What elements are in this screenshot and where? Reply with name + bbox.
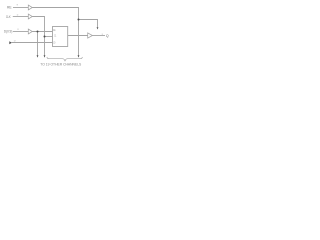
wire RE branch right to enable stub (79, 20, 98, 28)
buffer U3 (D) (28, 29, 32, 34)
wire CLK input (13, 16, 28, 18)
wire D down to other channels (37, 32, 39, 56)
svg-text:CE: CE (53, 28, 56, 32)
arrowhead decoder input (9, 41, 12, 44)
svg-text:TO 19 OTHER CHANNELS: TO 19 OTHER CHANNELS (40, 61, 81, 66)
wire CLK branch into latch clock pin (45, 36, 53, 38)
svg-text:D(0:9): D(0:9) (4, 29, 13, 33)
buffer U1 (RE) (28, 5, 32, 10)
wire RE input (13, 7, 28, 9)
wire CLK down to other channels (44, 37, 46, 56)
arrowhead RE enable stub (97, 27, 99, 29)
wire D buffer output into latch CE pin (32, 31, 52, 33)
svg-text:C1: C1 (54, 33, 56, 37)
junction node CLK (44, 36, 46, 38)
wire D input (13, 31, 28, 33)
wire latch output (68, 35, 88, 37)
svg-text:11: 11 (17, 29, 19, 31)
svg-text:9: 9 (17, 4, 19, 6)
wire RE buffer output to corner (32, 8, 78, 20)
arrowhead CLK to other channels (44, 55, 46, 57)
svg-text:1D: 1D (53, 41, 55, 45)
arrowhead D to other channels (37, 55, 39, 57)
arrowhead RE to other channels (78, 55, 80, 57)
svg-text:RE: RE (7, 5, 12, 9)
wire decoder row input (12, 42, 53, 44)
tri-state buffer U5 (88, 33, 93, 38)
underbrace to 19 other channels (47, 57, 83, 61)
buffer U2 (CLK) (28, 14, 32, 19)
svg-text:Q: Q (106, 34, 109, 38)
svg-text:CLK: CLK (6, 15, 11, 19)
wire output to Q (92, 35, 105, 37)
wire RE branch down to other channels (78, 20, 80, 56)
latch U4 box (53, 27, 68, 47)
junction node D (37, 31, 39, 33)
junction node RE (78, 19, 80, 21)
wire CLK buffer output to corner (32, 17, 44, 37)
